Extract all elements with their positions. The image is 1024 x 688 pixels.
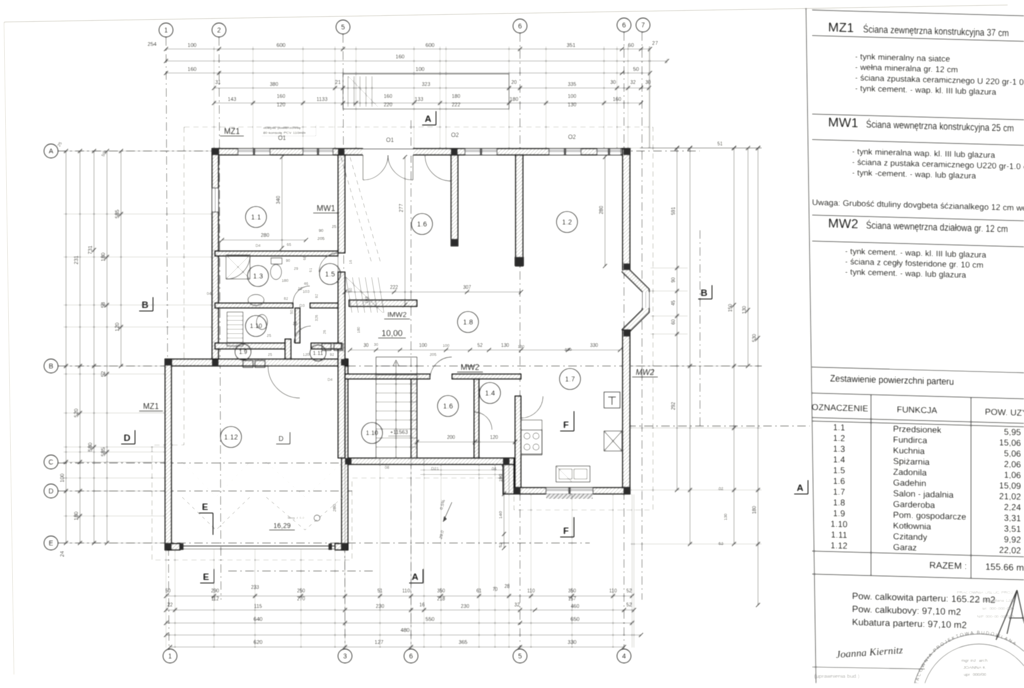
svg-text:222: 222 [390, 285, 399, 291]
svg-text:1.1: 1.1 [251, 213, 261, 222]
svg-text:5,06: 5,06 [1004, 448, 1021, 458]
svg-text:103: 103 [302, 289, 310, 294]
svg-text:133: 133 [415, 97, 424, 103]
wall V2 [451, 155, 458, 246]
exterior wall right upper [623, 149, 631, 271]
svg-text:61: 61 [308, 267, 313, 272]
entry opening [363, 148, 413, 156]
svg-text:155.66 m: 155.66 m [985, 562, 1024, 573]
rule [812, 215, 1024, 221]
svg-text:upr. 000/00: upr. 000/00 [964, 672, 987, 677]
svg-text:51: 51 [717, 142, 723, 148]
window O2 a [465, 149, 497, 156]
svg-text:1.10: 1.10 [830, 519, 847, 529]
svg-text:52: 52 [477, 343, 483, 349]
svg-text:1.10: 1.10 [250, 323, 263, 330]
wall V6k kitchen [515, 396, 521, 488]
svg-text:5,95: 5,95 [1004, 427, 1021, 437]
svg-text:180: 180 [452, 94, 461, 100]
svg-text:D21: D21 [431, 466, 440, 471]
room 1.10a [246, 316, 267, 337]
svg-text:30: 30 [374, 342, 379, 347]
extension lines left [63, 150, 212, 152]
svg-text:1: 1 [168, 652, 172, 661]
svg-text:3,51: 3,51 [1004, 523, 1021, 533]
svg-text:65: 65 [287, 242, 292, 247]
svg-text:Spiżarnia: Spiżarnia [893, 456, 930, 467]
svg-text:1.2: 1.2 [562, 218, 572, 227]
svg-text:103: 103 [364, 296, 369, 304]
svg-text:150: 150 [728, 304, 734, 313]
grid axis 5/6 [519, 33, 521, 648]
bottom dim chain 5 [170, 646, 624, 648]
grid axis 2 [219, 37, 221, 600]
svg-text:Gadehin: Gadehin [893, 477, 926, 488]
svg-text:160: 160 [277, 94, 286, 100]
svg-text:02: 02 [719, 486, 724, 491]
svg-text:280: 280 [332, 504, 338, 512]
wall H2 below 1.3 [215, 303, 293, 308]
svg-text:Kuchnia: Kuchnia [893, 445, 925, 456]
svg-text:1.7: 1.7 [833, 487, 845, 497]
garage door line [180, 545, 335, 547]
svg-text:120: 120 [277, 103, 286, 109]
svg-text:ul. Budowlana 12/3: ul. Budowlana 12/3 [977, 598, 1015, 603]
svg-text:(uprawnienia bud.): (uprawnienia bud.) [814, 674, 860, 680]
svg-text:222: 222 [452, 103, 461, 109]
bay window glazing [641, 292, 650, 308]
svg-text:MW2: MW2 [636, 368, 655, 377]
svg-text:1.12: 1.12 [224, 433, 238, 442]
svg-text:22: 22 [167, 603, 173, 609]
svg-text:6: 6 [622, 21, 626, 30]
svg-text:1.12: 1.12 [830, 540, 847, 550]
kitchen counter [521, 420, 542, 455]
svg-text:143: 143 [228, 97, 237, 103]
svg-text:127: 127 [374, 640, 383, 646]
room 1.3 [248, 266, 269, 287]
garage top wall [165, 359, 348, 366]
room 1.12 [221, 427, 242, 448]
svg-text:7: 7 [641, 21, 645, 30]
svg-text:1.3: 1.3 [833, 444, 845, 454]
svg-text:1.6: 1.6 [833, 476, 845, 486]
svg-text:120: 120 [490, 435, 499, 441]
svg-text:mgr inż. arch.: mgr inż. arch. [961, 658, 989, 663]
svg-text:D3: D3 [299, 303, 305, 308]
svg-text:1,06: 1,06 [1004, 470, 1021, 480]
bottom dim chain 1 [166, 595, 632, 597]
svg-text:E: E [202, 502, 208, 513]
room 1.6b [438, 396, 459, 417]
top dim chain 4 [214, 87, 649, 89]
staircase small [346, 277, 352, 313]
sink kitchen [556, 466, 590, 482]
svg-text:5: 5 [341, 23, 345, 32]
svg-text:tel. 000-000-000: tel. 000-000-000 [982, 606, 1015, 611]
porch steps [347, 76, 349, 107]
svg-text:O2: O2 [568, 135, 577, 141]
extension lines bottom [165, 543, 167, 648]
rule [812, 114, 1024, 120]
door pantry [474, 412, 492, 430]
svg-text:365: 365 [458, 640, 467, 646]
grid bubble C [44, 455, 58, 469]
stove [521, 430, 542, 454]
svg-text:PRACOWNIA USLUG PROJ.: PRACOWNIA USLUG PROJ. [957, 590, 1014, 595]
door 1.8 to 1.6 [430, 357, 452, 379]
top dim chain 3 [166, 72, 650, 74]
exterior wall bottom right [514, 488, 630, 495]
wall V5 [474, 379, 479, 458]
door garage [268, 366, 300, 398]
eave outline [152, 127, 653, 560]
svg-text:290: 290 [211, 589, 220, 595]
svg-text:31: 31 [215, 80, 221, 86]
grid bubble 4 bottom [617, 649, 631, 663]
svg-text:MZ1: MZ1 [143, 402, 160, 411]
svg-text:90: 90 [671, 277, 677, 283]
svg-text:1.11: 1.11 [831, 530, 848, 540]
grid bubble 5 top [336, 20, 350, 34]
sill hatch [546, 494, 593, 499]
svg-text:1.6: 1.6 [443, 402, 453, 411]
stamp [912, 634, 1024, 688]
svg-text:D: D [48, 487, 53, 496]
svg-text:200: 200 [447, 435, 456, 441]
svg-text:52: 52 [498, 542, 504, 548]
svg-text:340: 340 [276, 196, 282, 205]
exterior wall top [212, 149, 630, 156]
svg-text:08: 08 [385, 465, 390, 470]
grid bubble B [44, 359, 58, 373]
svg-text:1.4: 1.4 [833, 454, 845, 464]
shower 1.3 [226, 255, 250, 279]
room 1.10b [362, 423, 383, 444]
room 1.11 [310, 345, 326, 361]
grid axis 4/6 [623, 32, 625, 648]
svg-text:1.8: 1.8 [463, 318, 473, 327]
svg-text:6: 6 [409, 652, 413, 661]
wall V2b chimney [516, 155, 524, 266]
svg-text:3,31: 3,31 [1004, 513, 1021, 523]
terrace step lines [420, 469, 503, 471]
svg-text:90: 90 [318, 228, 324, 233]
svg-text:MW2: MW2 [828, 215, 858, 231]
wall V1 [338, 155, 345, 253]
svg-text:1.3: 1.3 [253, 272, 263, 281]
svg-text:6: 6 [518, 22, 522, 31]
svg-text:52: 52 [719, 541, 724, 546]
dim 280 vertical 1.2 [604, 157, 606, 266]
svg-text:FUNKCJA: FUNKCJA [897, 404, 938, 415]
grid axis 7 [641, 32, 643, 600]
svg-text:254: 254 [147, 42, 156, 48]
svg-text:1.5: 1.5 [325, 270, 335, 279]
svg-text:B: B [49, 362, 54, 371]
svg-text:380: 380 [270, 82, 279, 88]
sink 1.3 [248, 295, 264, 306]
svg-text:20: 20 [511, 80, 517, 86]
svg-text:MW1: MW1 [828, 114, 858, 130]
svg-text:2,24: 2,24 [1004, 502, 1021, 512]
svg-text:4: 4 [622, 652, 626, 661]
svg-text:160: 160 [187, 67, 196, 73]
svg-text:190: 190 [498, 474, 504, 482]
svg-text:351: 351 [566, 43, 575, 49]
wall V4 stairs [411, 379, 417, 458]
boiler T [604, 392, 620, 408]
svg-text:323: 323 [422, 82, 431, 88]
svg-text:640: 640 [253, 617, 262, 623]
svg-text:+11563: +11563 [390, 430, 408, 436]
right dim x758 [757, 148, 759, 605]
svg-text:IMW2: IMW2 [387, 310, 407, 319]
paper top edge [4, 5, 1008, 22]
svg-text:30: 30 [610, 80, 616, 86]
dash line above chains [228, 570, 375, 572]
grid axis C [58, 462, 352, 464]
svg-text:180: 180 [752, 506, 758, 515]
grid bubble 1 top [159, 23, 173, 37]
svg-text:530: 530 [752, 334, 758, 343]
svg-text:90: 90 [286, 258, 291, 263]
exterior wall bottom centre [345, 458, 514, 465]
svg-text:2: 2 [217, 26, 221, 35]
radiator 1.10 [227, 312, 243, 346]
svg-text:JOANNA K.: JOANNA K. [963, 665, 987, 670]
grid axis A [58, 150, 700, 152]
svg-text:1.2: 1.2 [833, 433, 845, 443]
left dim x80 [79, 151, 81, 543]
drain circle [314, 515, 320, 521]
svg-text:D: D [124, 433, 131, 444]
svg-text:C: C [48, 458, 53, 467]
svg-text:480: 480 [400, 628, 409, 634]
svg-text:Kotłownia: Kotłownia [893, 520, 931, 531]
table column lines [870, 395, 872, 576]
grid bubble A [44, 144, 58, 158]
aux axis y426 [627, 425, 810, 427]
dim 280 room1.1 [222, 239, 306, 241]
bay window walls [624, 269, 646, 333]
svg-text:9,92: 9,92 [1004, 534, 1021, 544]
window O2 b [549, 149, 581, 156]
bottom dim chain 3 [166, 622, 632, 624]
svg-text:O1: O1 [386, 138, 395, 144]
svg-text:A: A [49, 147, 54, 156]
svg-text:1133: 1133 [316, 97, 327, 103]
svg-text:591: 591 [671, 207, 677, 216]
garage floor marks [182, 497, 250, 530]
svg-text:1.9: 1.9 [239, 350, 248, 356]
door 1.3 [293, 286, 310, 303]
svg-text:MW2: MW2 [461, 363, 480, 372]
panel divider [806, 8, 816, 683]
right dim x748 [747, 148, 749, 366]
svg-text:92: 92 [330, 352, 335, 357]
svg-text:MZ1: MZ1 [224, 127, 241, 136]
svg-text:Salon - jadalnia: Salon - jadalnia [893, 488, 954, 500]
grid axis 3/5 [343, 34, 345, 648]
exterior wall right lower [623, 330, 631, 494]
svg-text:120: 120 [303, 352, 311, 357]
svg-text:RAZEM :: RAZEM : [929, 560, 967, 571]
room 1.1 [246, 207, 267, 228]
roof slope dashes [341, 157, 372, 264]
svg-text:307: 307 [463, 285, 472, 291]
svg-text:1.7: 1.7 [565, 375, 575, 384]
grid axis E [58, 542, 590, 544]
window small [597, 149, 621, 156]
svg-text:15,09: 15,09 [999, 480, 1021, 491]
grid bubble 7 top [636, 18, 650, 32]
svg-text:1.5: 1.5 [833, 465, 845, 475]
svg-text:52: 52 [626, 589, 632, 595]
svg-text:25: 25 [267, 333, 272, 338]
garage bottom wall [165, 544, 180, 551]
svg-text:100: 100 [568, 94, 577, 100]
door 1.1 [319, 253, 338, 272]
toilet 1.3 [271, 265, 282, 280]
table area rule [812, 367, 1024, 373]
svg-text:60: 60 [671, 319, 677, 325]
svg-text:130: 130 [517, 344, 525, 349]
bottom dim chain 2 [166, 609, 634, 611]
right dim top tick line [640, 147, 762, 149]
svg-text:330: 330 [564, 347, 572, 352]
grid bubble 3 bottom [338, 649, 352, 663]
svg-text:32: 32 [514, 603, 520, 609]
garage right wall [342, 359, 349, 550]
top dim chain 5 [214, 102, 641, 104]
svg-text:600: 600 [276, 43, 285, 49]
svg-text:1.9: 1.9 [833, 508, 845, 518]
svg-text:3: 3 [343, 652, 347, 661]
svg-text:32: 32 [630, 80, 636, 86]
svg-text:04: 04 [492, 466, 497, 471]
right dim x690 [689, 148, 691, 544]
svg-text:60: 60 [348, 287, 353, 292]
svg-text:E: E [49, 539, 54, 548]
svg-text:620: 620 [253, 640, 262, 646]
window left wall [212, 188, 219, 212]
rule [812, 140, 1024, 146]
svg-text:22,02: 22,02 [999, 545, 1021, 556]
svg-text:21: 21 [335, 80, 341, 86]
grid bubble 6b top [617, 18, 631, 32]
fireplace corner [604, 431, 622, 451]
paper left edge [4, 22, 14, 675]
svg-text:50: 50 [633, 67, 639, 73]
left dim x94 [93, 151, 95, 543]
dim 340 vertical [281, 157, 283, 248]
svg-text:600: 600 [425, 43, 434, 49]
svg-text:46: 46 [304, 281, 309, 286]
svg-text:280: 280 [261, 233, 270, 239]
porch outline [343, 74, 509, 109]
svg-text:52: 52 [626, 603, 632, 609]
wall V6 [295, 308, 300, 343]
svg-text:30: 30 [363, 343, 369, 349]
svg-text:82: 82 [284, 296, 289, 301]
room 1.8 [458, 312, 479, 333]
bottom dim chain 4 [166, 634, 641, 636]
top dim chain 2 [166, 60, 667, 62]
extension lines right [630, 147, 762, 149]
svg-text:45: 45 [671, 300, 677, 306]
room 1.4 [480, 383, 501, 404]
svg-text:280: 280 [599, 206, 605, 215]
svg-text:Przedsionek: Przedsionek [893, 424, 942, 435]
window O1 b [303, 149, 333, 156]
wall MW2 horizontal [345, 374, 430, 379]
svg-text:80 konsolę PCV 110mm: 80 konsolę PCV 110mm [263, 130, 307, 135]
dim 277 vertical [404, 157, 406, 305]
svg-text:112: 112 [211, 597, 219, 603]
grid bubble 1 bottom [163, 649, 177, 663]
svg-text:O2: O2 [451, 133, 460, 139]
garage left wall [165, 359, 172, 550]
svg-text:1.10: 1.10 [366, 430, 379, 437]
svg-text:292: 292 [671, 402, 677, 411]
razem row [812, 551, 1024, 557]
svg-text:130: 130 [501, 343, 510, 349]
svg-text:10,00: 10,00 [381, 328, 403, 338]
door arc near V2 [425, 155, 451, 181]
room 1.2 [557, 212, 578, 233]
svg-text:650: 650 [570, 617, 579, 623]
svg-text:1.11: 1.11 [313, 351, 323, 357]
grid axis B [58, 365, 762, 367]
svg-text:26: 26 [322, 329, 327, 334]
svg-text:D: D [278, 436, 283, 443]
svg-text:330: 330 [590, 343, 599, 349]
svg-text:130: 130 [742, 306, 748, 315]
rule [812, 241, 1024, 247]
svg-text:NIP 000-00-00-000: NIP 000-00-00-000 [977, 614, 1015, 619]
svg-text:5: 5 [518, 652, 522, 661]
wall below small stair [349, 300, 417, 307]
grid bubble 5 bottom [513, 649, 527, 663]
svg-text:B: B [142, 300, 149, 311]
svg-text:230: 230 [461, 604, 470, 610]
svg-text:Czitandy: Czitandy [893, 531, 928, 542]
svg-text:25: 25 [332, 224, 337, 229]
grid bubble 6 top [513, 19, 527, 33]
svg-text:Garaz: Garaz [893, 542, 917, 553]
svg-text:180: 180 [510, 97, 519, 103]
svg-text:130: 130 [723, 513, 728, 521]
svg-text:25: 25 [268, 352, 273, 357]
svg-text:326: 326 [314, 314, 319, 322]
grid bubble 2 top [212, 23, 226, 37]
svg-text:F: F [563, 420, 569, 431]
left dim x66 [65, 151, 67, 543]
svg-text:100: 100 [419, 343, 428, 349]
grid axis 1 [166, 37, 169, 650]
svg-text:D4: D4 [255, 243, 261, 248]
exterior wall left [212, 149, 219, 367]
room 1.5 [320, 264, 341, 285]
left dim x107 [106, 151, 108, 543]
svg-text:OZNACZENIE: OZNACZENIE [812, 402, 869, 414]
dim x504 below wall [503, 464, 505, 548]
svg-text:F: F [563, 526, 569, 537]
svg-text:A: A [425, 114, 432, 125]
door 1.10 [294, 326, 311, 343]
svg-text:16,29: 16,29 [273, 523, 291, 530]
